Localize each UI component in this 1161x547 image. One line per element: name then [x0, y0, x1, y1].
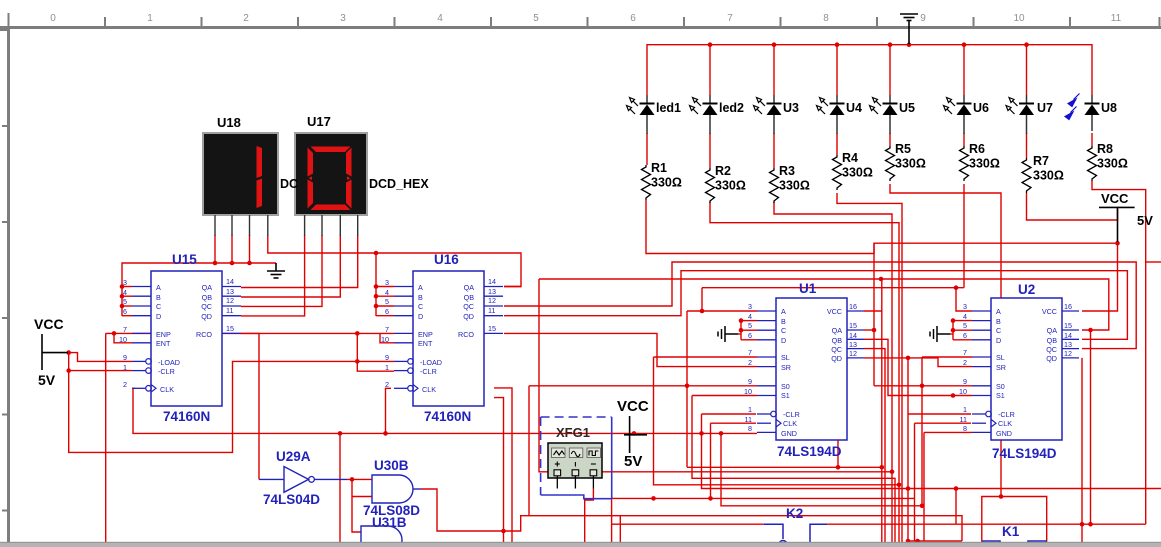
wire U1 CLK — [711, 422, 757, 424]
wire R5 down-right — [890, 184, 1001, 497]
ground top center — [900, 14, 918, 44]
svg-text:SR: SR — [781, 363, 791, 372]
svg-text:R2: R2 — [715, 164, 731, 178]
resistor R3 — [770, 168, 779, 203]
wire VCC left to LOAD — [69, 353, 132, 362]
wire ENP rail — [106, 332, 394, 334]
svg-text:12: 12 — [849, 349, 857, 358]
VCC right symbol — [1099, 191, 1153, 242]
wire U2 CLR — [908, 413, 971, 415]
wire U15 ENT jog — [114, 333, 132, 342]
node U1 left — [700, 309, 705, 314]
wire K1 VCC rail — [612, 523, 764, 525]
svg-text:15: 15 — [226, 324, 234, 333]
node U1 clk net — [708, 496, 713, 501]
svg-text:9: 9 — [748, 377, 752, 386]
svg-text:1: 1 — [147, 13, 153, 24]
U17 display pins — [305, 215, 358, 236]
wire right edge stub — [1146, 261, 1161, 263]
wire U8-R8 link — [1091, 133, 1093, 146]
svg-text:DC: DC — [280, 177, 298, 191]
SCROLLBAR — [0, 542, 1161, 547]
svg-text:2: 2 — [748, 358, 752, 367]
node U29A out — [350, 477, 355, 482]
svg-text:4: 4 — [437, 13, 443, 24]
svg-text:330Ω: 330Ω — [779, 179, 810, 193]
svg-text:6: 6 — [630, 13, 636, 24]
svg-text:R8: R8 — [1097, 142, 1113, 156]
svg-text:10: 10 — [1013, 13, 1025, 24]
VCC left symbol — [34, 316, 68, 388]
svg-text:led2: led2 — [719, 101, 744, 115]
LED led2 — [690, 95, 718, 134]
wire U1 QA to U2 S0 — [864, 329, 874, 331]
wire U16 ABCD bundle — [375, 253, 377, 316]
svg-text:74160N: 74160N — [424, 409, 471, 424]
relay K1 box — [982, 541, 1047, 545]
wire U17 pin1 from U15 QD — [241, 235, 305, 316]
svg-text:4: 4 — [123, 288, 127, 297]
svg-text:-LOAD: -LOAD — [158, 358, 180, 367]
wire R3 down-right — [774, 202, 892, 544]
svg-text:U8: U8 — [1101, 101, 1117, 115]
node U2 QA — [1088, 328, 1093, 333]
node 5V rail junction — [1115, 241, 1120, 246]
wire clock rail branch to U31B in2 — [340, 433, 361, 543]
svg-text:74160N: 74160N — [163, 409, 210, 424]
svg-text:11: 11 — [745, 415, 752, 424]
wire y279 rail — [539, 279, 1109, 330]
svg-text:-CLR: -CLR — [158, 367, 175, 376]
svg-text:R3: R3 — [779, 164, 795, 178]
wire led2-R2 link — [709, 133, 711, 168]
svg-text:U1: U1 — [799, 281, 817, 296]
svg-text:1: 1 — [748, 405, 752, 414]
node xfg — [501, 529, 506, 534]
wire U17 pin4 from U15 QA — [241, 235, 358, 288]
node U15 abcd — [120, 284, 125, 289]
wire U30B out to K2 rail — [421, 489, 962, 541]
sideways ground U2 — [930, 326, 953, 342]
svg-text:11: 11 — [226, 306, 233, 315]
svg-text:SL: SL — [781, 353, 790, 362]
svg-text:QD: QD — [831, 354, 842, 363]
LED U6 — [944, 95, 972, 134]
IC U1 74LS194D — [744, 298, 864, 440]
svg-text:QA: QA — [832, 326, 843, 335]
wire U7 drop — [1026, 45, 1028, 95]
wire R6 down — [963, 184, 965, 288]
svg-text:5: 5 — [123, 297, 127, 306]
svg-text:8: 8 — [823, 13, 829, 24]
svg-text:5: 5 — [748, 321, 752, 330]
wire U1 QC drop — [864, 349, 885, 544]
svg-text:330Ω: 330Ω — [651, 176, 682, 190]
svg-text:10: 10 — [744, 387, 752, 396]
node ENP — [112, 331, 117, 336]
svg-text:9: 9 — [123, 353, 127, 362]
svg-text:D: D — [156, 312, 161, 321]
svg-text:10: 10 — [119, 335, 127, 344]
wire U1 QB to U2 S1 — [864, 339, 972, 395]
svg-text:13: 13 — [849, 340, 857, 349]
svg-text:U18: U18 — [217, 115, 241, 130]
wire U1 gnd-symbol BCD ties — [741, 320, 757, 322]
LED U7 — [1006, 95, 1034, 134]
svg-text:QD: QD — [201, 312, 212, 321]
LED U3 — [754, 95, 782, 134]
svg-text:330Ω: 330Ω — [842, 166, 873, 180]
svg-text:QC: QC — [201, 302, 212, 311]
AND gate U31B (clipped) — [361, 515, 407, 547]
resistor R5 — [886, 146, 895, 181]
wire U18 pin4 to U16 QA net — [268, 235, 521, 287]
svg-text:U29A: U29A — [276, 449, 311, 464]
svg-text:6: 6 — [123, 307, 127, 316]
top ruler ticks — [9, 13, 1160, 26]
top ruler bar — [0, 26, 1161, 29]
wire U1A vertical — [686, 311, 688, 467]
wire U3-R3 link — [773, 133, 775, 168]
wire U2 CLK — [915, 422, 972, 424]
svg-text:14: 14 — [849, 331, 857, 340]
svg-text:led1: led1 — [656, 101, 681, 115]
wire U7-R7 link — [1026, 133, 1028, 158]
svg-text:4: 4 — [748, 312, 752, 321]
svg-text:U15: U15 — [172, 252, 197, 267]
node clock rail — [383, 431, 388, 436]
ground under displays — [267, 263, 285, 278]
wire U2 gnd BCD ties — [953, 320, 972, 322]
svg-text:9: 9 — [920, 13, 926, 24]
wire U16 QD loop to U2 QC — [504, 271, 1127, 340]
svg-text:R5: R5 — [895, 142, 911, 156]
wire U1 S0 rail — [529, 385, 757, 387]
wire U5 drop — [889, 45, 891, 95]
svg-text:15: 15 — [849, 321, 857, 330]
wire R4 down-right — [837, 193, 902, 544]
wire U16 LOAD from ENP rail — [356, 333, 358, 361]
svg-text:A: A — [781, 307, 786, 316]
wire x529 drop — [528, 386, 530, 516]
LED led1 — [627, 95, 655, 134]
node bus junctions — [708, 42, 713, 47]
wire U16 QC loop to U2 QA — [504, 262, 1136, 349]
svg-text:1: 1 — [123, 363, 127, 372]
IC U2 74LS194D — [959, 298, 1079, 440]
svg-text:U3: U3 — [783, 101, 799, 115]
svg-text:330Ω: 330Ω — [969, 157, 1000, 171]
sideways ground U1 — [718, 326, 741, 342]
node U16 abcd — [374, 251, 379, 256]
svg-text:5V: 5V — [1137, 213, 1153, 228]
wire U4-R4 link — [836, 133, 838, 155]
wire K1 frame — [982, 497, 1047, 542]
wire VCC left down U-shape — [69, 361, 394, 452]
svg-text:5V: 5V — [624, 453, 642, 470]
svg-text:A: A — [156, 283, 161, 292]
ruler numbers — [50, 13, 1121, 24]
wire U16 CLK drop — [386, 388, 392, 434]
svg-text:VCC: VCC — [617, 398, 649, 415]
svg-text:DCD_HEX: DCD_HEX — [369, 177, 429, 191]
wire B1 rail y467 — [687, 466, 882, 468]
wire R2 down-right — [710, 202, 899, 544]
node U2 bcd gnd — [951, 318, 956, 323]
svg-text:6: 6 — [748, 331, 752, 340]
node VCC left — [66, 350, 71, 355]
svg-text:14: 14 — [226, 277, 234, 286]
node K1 — [1080, 522, 1085, 527]
svg-text:3: 3 — [748, 302, 752, 311]
wire U1 CLR — [702, 413, 757, 415]
node U2 A — [954, 285, 959, 290]
svg-text:R6: R6 — [969, 142, 985, 156]
wire U16 RCO to U1 SR — [504, 333, 757, 366]
wire U16 ENT jog — [380, 333, 394, 342]
resistor R1 — [642, 165, 651, 200]
wire U15 CLK down to clock rail — [133, 388, 757, 433]
seven-seg display U18 — [203, 133, 278, 215]
resistor R6 — [960, 146, 969, 181]
svg-text:5V: 5V — [38, 372, 56, 388]
resistor R8 — [1088, 146, 1097, 181]
svg-text:VCC: VCC — [827, 307, 842, 316]
svg-text:CLK: CLK — [160, 385, 174, 394]
wire led1-R1 link — [646, 133, 648, 165]
svg-text:3: 3 — [123, 278, 127, 287]
wire U2 SL — [922, 356, 972, 358]
wire U15 RCO to U29A input — [241, 333, 259, 479]
svg-text:QC: QC — [831, 345, 842, 354]
svg-text:74LS194D: 74LS194D — [777, 444, 842, 459]
wire VCC left to CLR — [69, 353, 132, 371]
svg-text:GND: GND — [781, 429, 797, 438]
svg-text:74LS04D: 74LS04D — [263, 492, 320, 507]
svg-text:S1: S1 — [781, 391, 790, 400]
svg-text:11: 11 — [1111, 13, 1122, 24]
svg-text:U16: U16 — [434, 252, 459, 267]
wire under U1 riser — [837, 440, 839, 467]
resistor R4 — [833, 155, 842, 190]
svg-text:VCC: VCC — [34, 316, 64, 332]
wire U16 QA up-over — [504, 286, 521, 288]
wire ENP rail left drop — [105, 333, 107, 547]
wire ground net under displays — [122, 263, 276, 316]
wire XFG vertical x504 — [494, 398, 504, 544]
wire U2 A tie — [956, 288, 972, 311]
wire U1 SL — [654, 356, 758, 358]
wire U17 pin3 from U15 QB — [241, 235, 340, 297]
svg-text:7: 7 — [727, 13, 733, 24]
svg-text:C: C — [781, 326, 786, 335]
wire U4 drop — [836, 45, 838, 95]
svg-text:U17: U17 — [307, 114, 331, 129]
svg-text:XFG1: XFG1 — [556, 425, 590, 440]
wire U5-R5 link — [889, 133, 891, 146]
IC U15 74160N — [119, 271, 241, 406]
LEDs — [627, 94, 1118, 135]
svg-text:U7: U7 — [1037, 101, 1053, 115]
node display gnd net — [213, 261, 218, 266]
svg-text:74LS194D: 74LS194D — [992, 446, 1057, 461]
svg-text:U2: U2 — [1018, 282, 1035, 297]
wire R7 down-right — [1027, 193, 1118, 220]
left ruler bar — [7, 26, 10, 547]
wire x539 drop — [539, 279, 892, 472]
wire U1 A stub — [687, 310, 757, 312]
svg-text:8: 8 — [748, 424, 752, 433]
wire U6 drop — [963, 45, 965, 95]
wire U1 GND — [721, 433, 924, 505]
svg-text:7: 7 — [748, 348, 752, 357]
svg-text:16: 16 — [849, 302, 857, 311]
wire U1A net y289 — [702, 287, 964, 289]
left ruler ticks — [0, 30, 7, 511]
svg-text:330Ω: 330Ω — [1033, 169, 1064, 183]
relay K2 partial — [764, 524, 827, 547]
wire XFG vertical x512 to bottom rail — [494, 388, 512, 544]
IC U16 74160N — [381, 271, 503, 406]
wire U2 QD drop to K1 — [1081, 358, 1083, 547]
svg-text:330Ω: 330Ω — [895, 157, 926, 171]
wire U17 pin2 from U15 QC — [241, 235, 322, 306]
node y467 — [836, 465, 841, 470]
svg-text:330Ω: 330Ω — [715, 179, 746, 193]
svg-text:7: 7 — [123, 325, 127, 334]
svg-text:VCC: VCC — [1101, 191, 1129, 206]
U18 display pins — [215, 215, 268, 236]
svg-text:-CLR: -CLR — [783, 410, 800, 419]
NOT gate U29A — [259, 449, 347, 507]
svg-text:D: D — [781, 336, 786, 345]
wire U1 S1 — [692, 395, 757, 397]
wire U2 VCC16 — [1082, 244, 1118, 312]
node U1 bcd gnd — [739, 318, 744, 323]
wire U3 drop — [773, 45, 775, 95]
wire y496 rail — [612, 497, 915, 499]
wire U30B input2 — [352, 496, 372, 498]
svg-text:5: 5 — [533, 13, 539, 24]
svg-text:R1: R1 — [651, 161, 667, 175]
wire XFG minus terminal down — [585, 489, 594, 544]
svg-text:U31B: U31B — [372, 515, 407, 530]
wire U29A out branch to U31B — [352, 479, 361, 532]
XFG1 function generator — [541, 417, 612, 499]
svg-text:R7: R7 — [1033, 154, 1049, 168]
svg-text:S0: S0 — [781, 382, 790, 391]
wire U1 VCC16 riser — [864, 310, 882, 312]
wire R1 to 5V rail — [646, 200, 1118, 254]
svg-text:QB: QB — [832, 336, 843, 345]
svg-text:3: 3 — [340, 13, 346, 24]
LED U5 — [870, 95, 898, 134]
wire LED supply bus — [647, 45, 1092, 95]
svg-text:K1: K1 — [1002, 524, 1020, 539]
wire U6-R6 link — [963, 133, 965, 146]
svg-text:13: 13 — [226, 287, 234, 296]
svg-text:C: C — [156, 302, 161, 311]
svg-text:0: 0 — [50, 13, 56, 24]
wire U18 pins down — [214, 235, 216, 263]
wire R8 down-right — [1092, 181, 1146, 524]
svg-text:U30B: U30B — [374, 458, 409, 473]
seven-seg display U17 — [295, 133, 367, 215]
svg-text:B: B — [781, 317, 786, 326]
svg-text:ENP: ENP — [156, 330, 171, 339]
svg-text:RCO: RCO — [196, 330, 212, 339]
wire led2 drop — [709, 45, 711, 95]
svg-text:U6: U6 — [973, 101, 989, 115]
wire x881 drop — [881, 279, 883, 544]
wire U2 QA drop — [1090, 330, 1092, 524]
svg-text:2: 2 — [243, 13, 249, 24]
svg-text:QA: QA — [202, 283, 213, 292]
node y279 — [879, 277, 884, 282]
svg-text:R4: R4 — [842, 151, 858, 165]
svg-text:330Ω: 330Ω — [1097, 157, 1128, 171]
wire U29A out rail — [347, 478, 372, 480]
svg-text:U4: U4 — [846, 101, 862, 115]
wire U15 ABCD stubs — [122, 286, 132, 288]
svg-text:U5: U5 — [899, 101, 915, 115]
svg-text:12: 12 — [226, 296, 234, 305]
LED U8 blue arrows — [1065, 94, 1100, 132]
VCC middle symbol — [617, 398, 649, 470]
AND gate U30B — [363, 458, 421, 518]
resistor R2 — [706, 168, 715, 203]
svg-text:ENT: ENT — [156, 339, 171, 348]
svg-text:K2: K2 — [786, 506, 803, 521]
svg-text:B: B — [156, 293, 161, 302]
LED U4 — [817, 95, 845, 134]
svg-text:CLK: CLK — [783, 419, 797, 428]
resistor R7 — [1022, 158, 1031, 193]
Resistors — [642, 142, 1128, 203]
wire U1 QD to U2 SR — [864, 358, 972, 367]
svg-text:QB: QB — [202, 293, 213, 302]
svg-text:2: 2 — [123, 380, 127, 389]
wire U2 GND — [924, 431, 972, 433]
